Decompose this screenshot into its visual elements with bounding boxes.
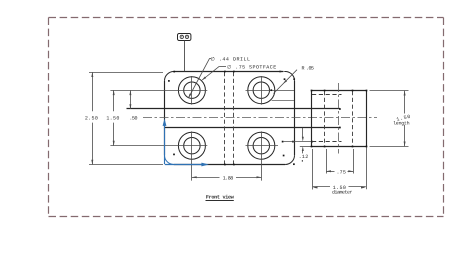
svg-text:length: length: [393, 120, 410, 126]
svg-text:∅ .75 SPOTFACE: ∅ .75 SPOTFACE: [227, 64, 277, 70]
svg-text:.75: .75: [336, 169, 346, 175]
svg-text:.12: .12: [299, 154, 309, 160]
svg-text:R .05: R .05: [302, 66, 314, 72]
svg-text:.50: .50: [129, 115, 137, 121]
svg-text:1.88: 1.88: [223, 176, 234, 182]
svg-text:2.50: 2.50: [85, 115, 98, 121]
svg-text:Front view: Front view: [206, 195, 235, 201]
svg-text:diameter: diameter: [332, 190, 352, 196]
svg-text:1.50: 1.50: [106, 115, 119, 121]
svg-text:∅ .44 DRILL: ∅ .44 DRILL: [211, 56, 251, 62]
